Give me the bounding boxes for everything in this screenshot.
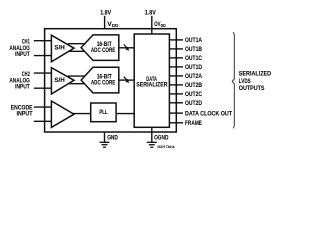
- svg-text:PLL: PLL: [99, 109, 107, 116]
- svg-text:INPUT: INPUT: [17, 111, 33, 118]
- svg-text:DD: DD: [161, 23, 167, 28]
- svg-text:DATA CLOCK OUT: DATA CLOCK OUT: [185, 110, 232, 117]
- svg-text:SERIALIZED: SERIALIZED: [239, 71, 272, 78]
- svg-text:S/H: S/H: [54, 78, 65, 84]
- svg-text:ADC CORE: ADC CORE: [91, 47, 116, 54]
- svg-text:OUT1D: OUT1D: [185, 64, 202, 71]
- svg-text:LVDS: LVDS: [239, 78, 251, 85]
- svg-text:S/H: S/H: [54, 46, 65, 52]
- svg-text:OUT1A: OUT1A: [185, 37, 202, 44]
- svg-text:INPUT: INPUT: [15, 51, 30, 58]
- svg-text:1.8V: 1.8V: [145, 9, 157, 16]
- svg-text:21870 TA01a: 21870 TA01a: [157, 145, 175, 149]
- svg-text:SERIALIZER: SERIALIZER: [136, 82, 167, 89]
- svg-text:OUT2D: OUT2D: [185, 100, 202, 107]
- svg-text:OUT2C: OUT2C: [185, 91, 202, 98]
- svg-text:OUT1C: OUT1C: [185, 55, 202, 62]
- svg-text:ADC CORE: ADC CORE: [91, 80, 116, 87]
- svg-text:OUT2B: OUT2B: [185, 82, 202, 89]
- svg-text:OUTPUTS: OUTPUTS: [239, 85, 265, 92]
- svg-text:DD: DD: [112, 23, 119, 28]
- svg-text:OUT1B: OUT1B: [185, 46, 202, 53]
- svg-text:OUT2A: OUT2A: [185, 73, 202, 80]
- svg-text:1.8V: 1.8V: [100, 9, 112, 16]
- svg-text:OGND: OGND: [154, 135, 169, 142]
- svg-text:INPUT: INPUT: [15, 84, 30, 91]
- svg-text:FRAME: FRAME: [185, 120, 203, 127]
- svg-text:GND: GND: [107, 135, 118, 142]
